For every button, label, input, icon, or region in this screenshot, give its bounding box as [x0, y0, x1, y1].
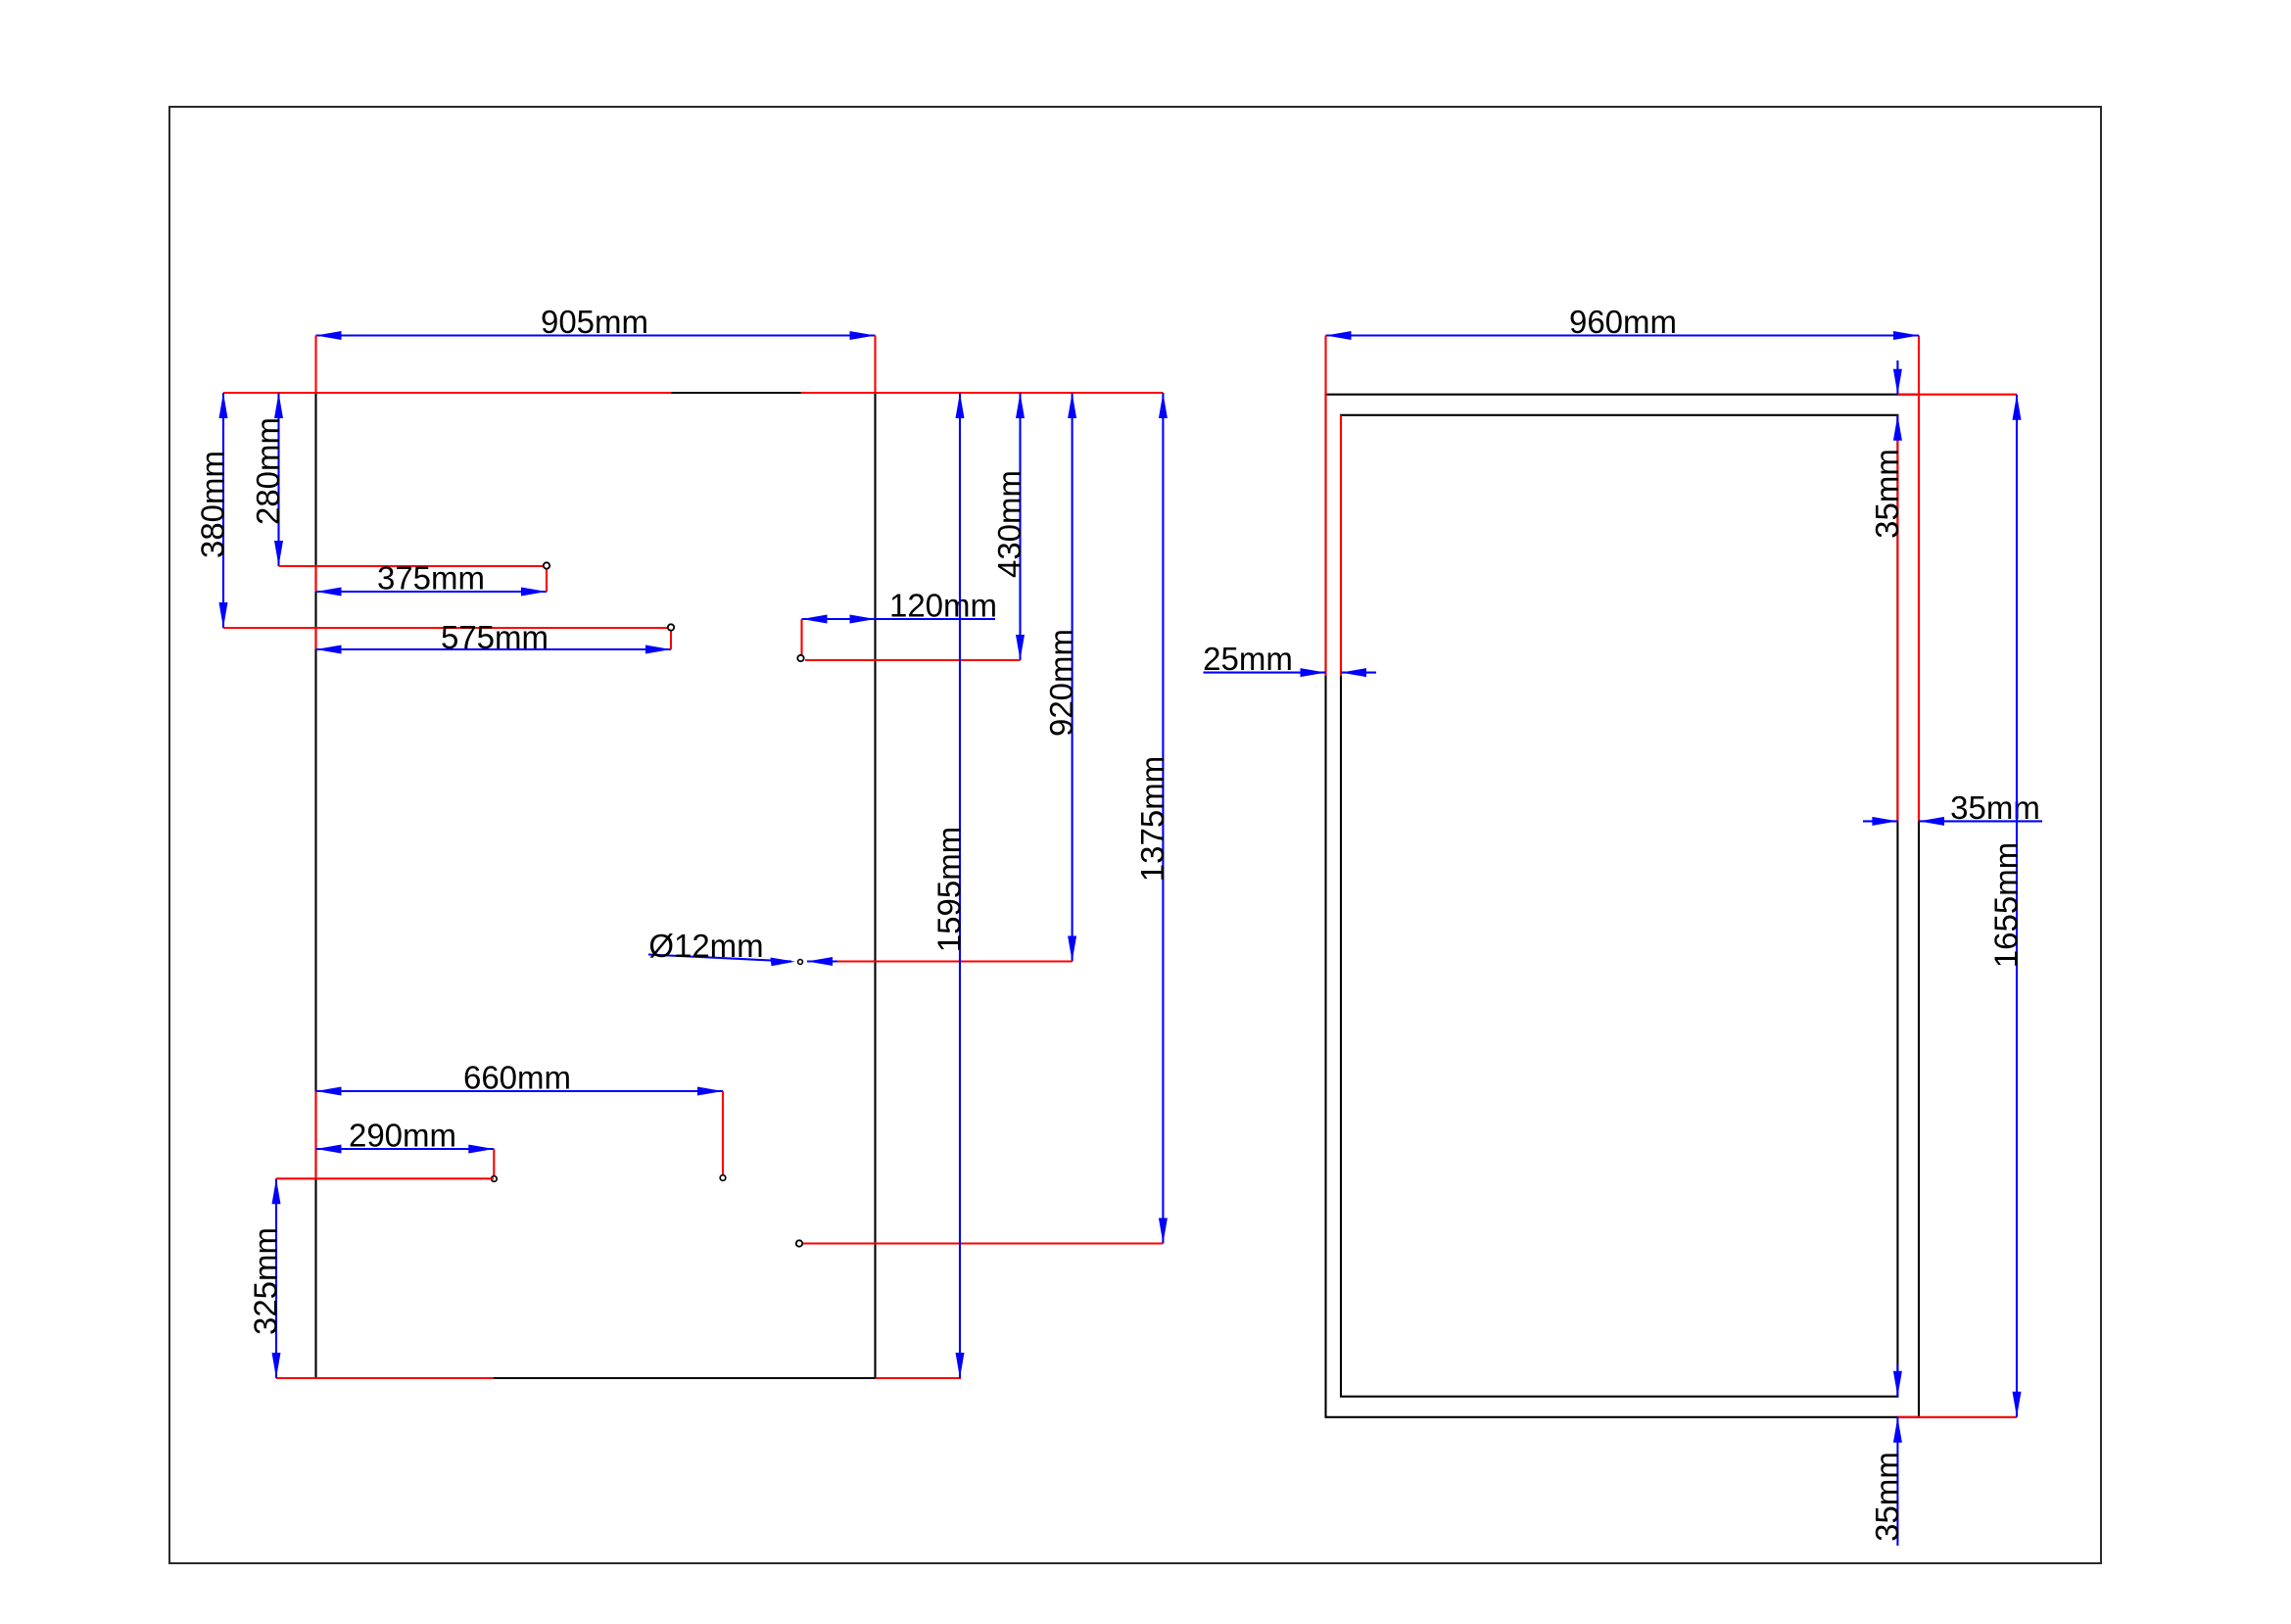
dimension 430mm [805, 393, 1027, 660]
hole H7 [796, 1240, 802, 1246]
dimension 380mm [195, 393, 672, 628]
panel A outline [316, 393, 876, 1378]
drawing sheet border frame [169, 107, 2101, 1563]
svg-text:380mm: 380mm [195, 451, 231, 558]
dimension 35mm (top right) [1869, 360, 1905, 539]
svg-text:905mm: 905mm [541, 304, 648, 340]
hole H1 [544, 562, 549, 568]
svg-text:1375mm: 1375mm [1134, 756, 1170, 882]
panel B inner outline [1341, 415, 1897, 1397]
dimension 905mm [316, 304, 876, 393]
dimension 1375mm [803, 393, 1170, 1244]
hole H6 [798, 960, 803, 965]
extension line: top edge (red overlay) [223, 392, 1163, 394]
svg-text:325mm: 325mm [248, 1227, 284, 1335]
dimension 35mm (right) [1863, 789, 2042, 826]
hole H4 [720, 1175, 726, 1181]
dimension 375mm [316, 560, 548, 597]
svg-text:575mm: 575mm [441, 619, 549, 655]
svg-text:920mm: 920mm [1043, 629, 1079, 737]
dimension 280mm [250, 393, 547, 566]
svg-text:25mm: 25mm [1203, 641, 1293, 677]
svg-text:35mm: 35mm [1950, 789, 2040, 826]
hole H2 [668, 624, 674, 630]
svg-text:1655mm: 1655mm [1988, 842, 2025, 968]
dimension 575mm [316, 619, 672, 655]
svg-text:Ø12mm: Ø12mm [648, 928, 763, 964]
svg-text:960mm: 960mm [1569, 304, 1677, 340]
svg-text:280mm: 280mm [250, 417, 286, 525]
panel B outer outline [1326, 395, 1920, 1417]
extension line: bottom edge (red overlay) [276, 1377, 961, 1379]
svg-text:35mm: 35mm [1869, 449, 1905, 539]
dimension 960mm [1326, 304, 1920, 395]
svg-text:35mm: 35mm [1869, 1452, 1905, 1542]
svg-text:1595mm: 1595mm [931, 827, 968, 952]
dimension 290mm [316, 1118, 495, 1179]
svg-text:120mm: 120mm [889, 588, 997, 624]
dimension 920mm [807, 393, 1079, 966]
hole H3 [492, 1176, 498, 1182]
hole H5 [797, 655, 803, 661]
label Ø12mm with leader [648, 928, 795, 966]
dimension 35mm (bottom right) [1869, 1364, 1905, 1546]
svg-text:660mm: 660mm [463, 1060, 571, 1096]
dimension 1655mm [1988, 395, 2025, 1417]
svg-text:375mm: 375mm [377, 560, 485, 597]
dimension 660mm [316, 1060, 724, 1178]
dimension 120mm [802, 588, 998, 655]
extension line: panel left edge red overlays [314, 566, 316, 1178]
dimension 25mm [1203, 641, 1376, 677]
extension overlays on panel B edges (red) [1326, 336, 2018, 1417]
svg-text:290mm: 290mm [349, 1118, 456, 1154]
svg-text:430mm: 430mm [991, 470, 1027, 578]
dimension 325mm [248, 1178, 495, 1378]
dimension 1595mm [931, 393, 968, 1378]
